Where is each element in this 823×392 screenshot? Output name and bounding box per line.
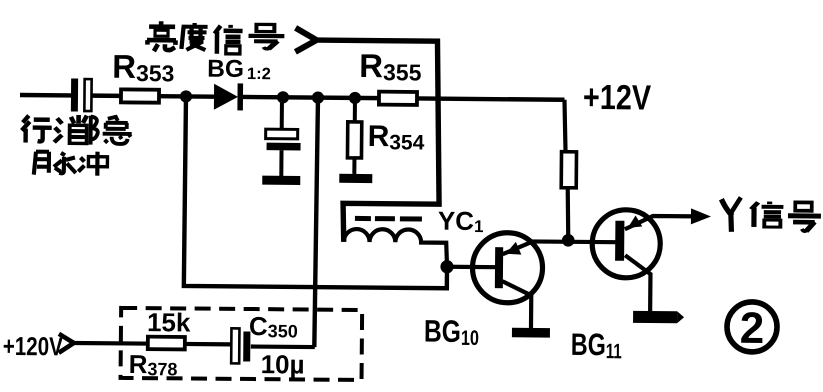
svg-text:2: 2	[740, 304, 765, 353]
svg-text:R354: R354	[367, 120, 424, 154]
svg-text:10µ: 10µ	[261, 349, 305, 379]
svg-text:BG1:2: BG1:2	[207, 56, 271, 84]
svg-text:YC1: YC1	[438, 206, 484, 236]
svg-text:BG11: BG11	[571, 327, 623, 363]
svg-text:15k: 15k	[147, 307, 191, 337]
svg-text:R355: R355	[359, 47, 422, 86]
svg-text:BG10: BG10	[424, 314, 479, 350]
svg-text:C350: C350	[249, 311, 298, 341]
svg-text:R378: R378	[129, 349, 178, 379]
svg-text:+12V: +12V	[583, 78, 652, 118]
svg-text:+120V: +120V	[3, 331, 64, 362]
svg-text:R353: R353	[112, 48, 175, 87]
